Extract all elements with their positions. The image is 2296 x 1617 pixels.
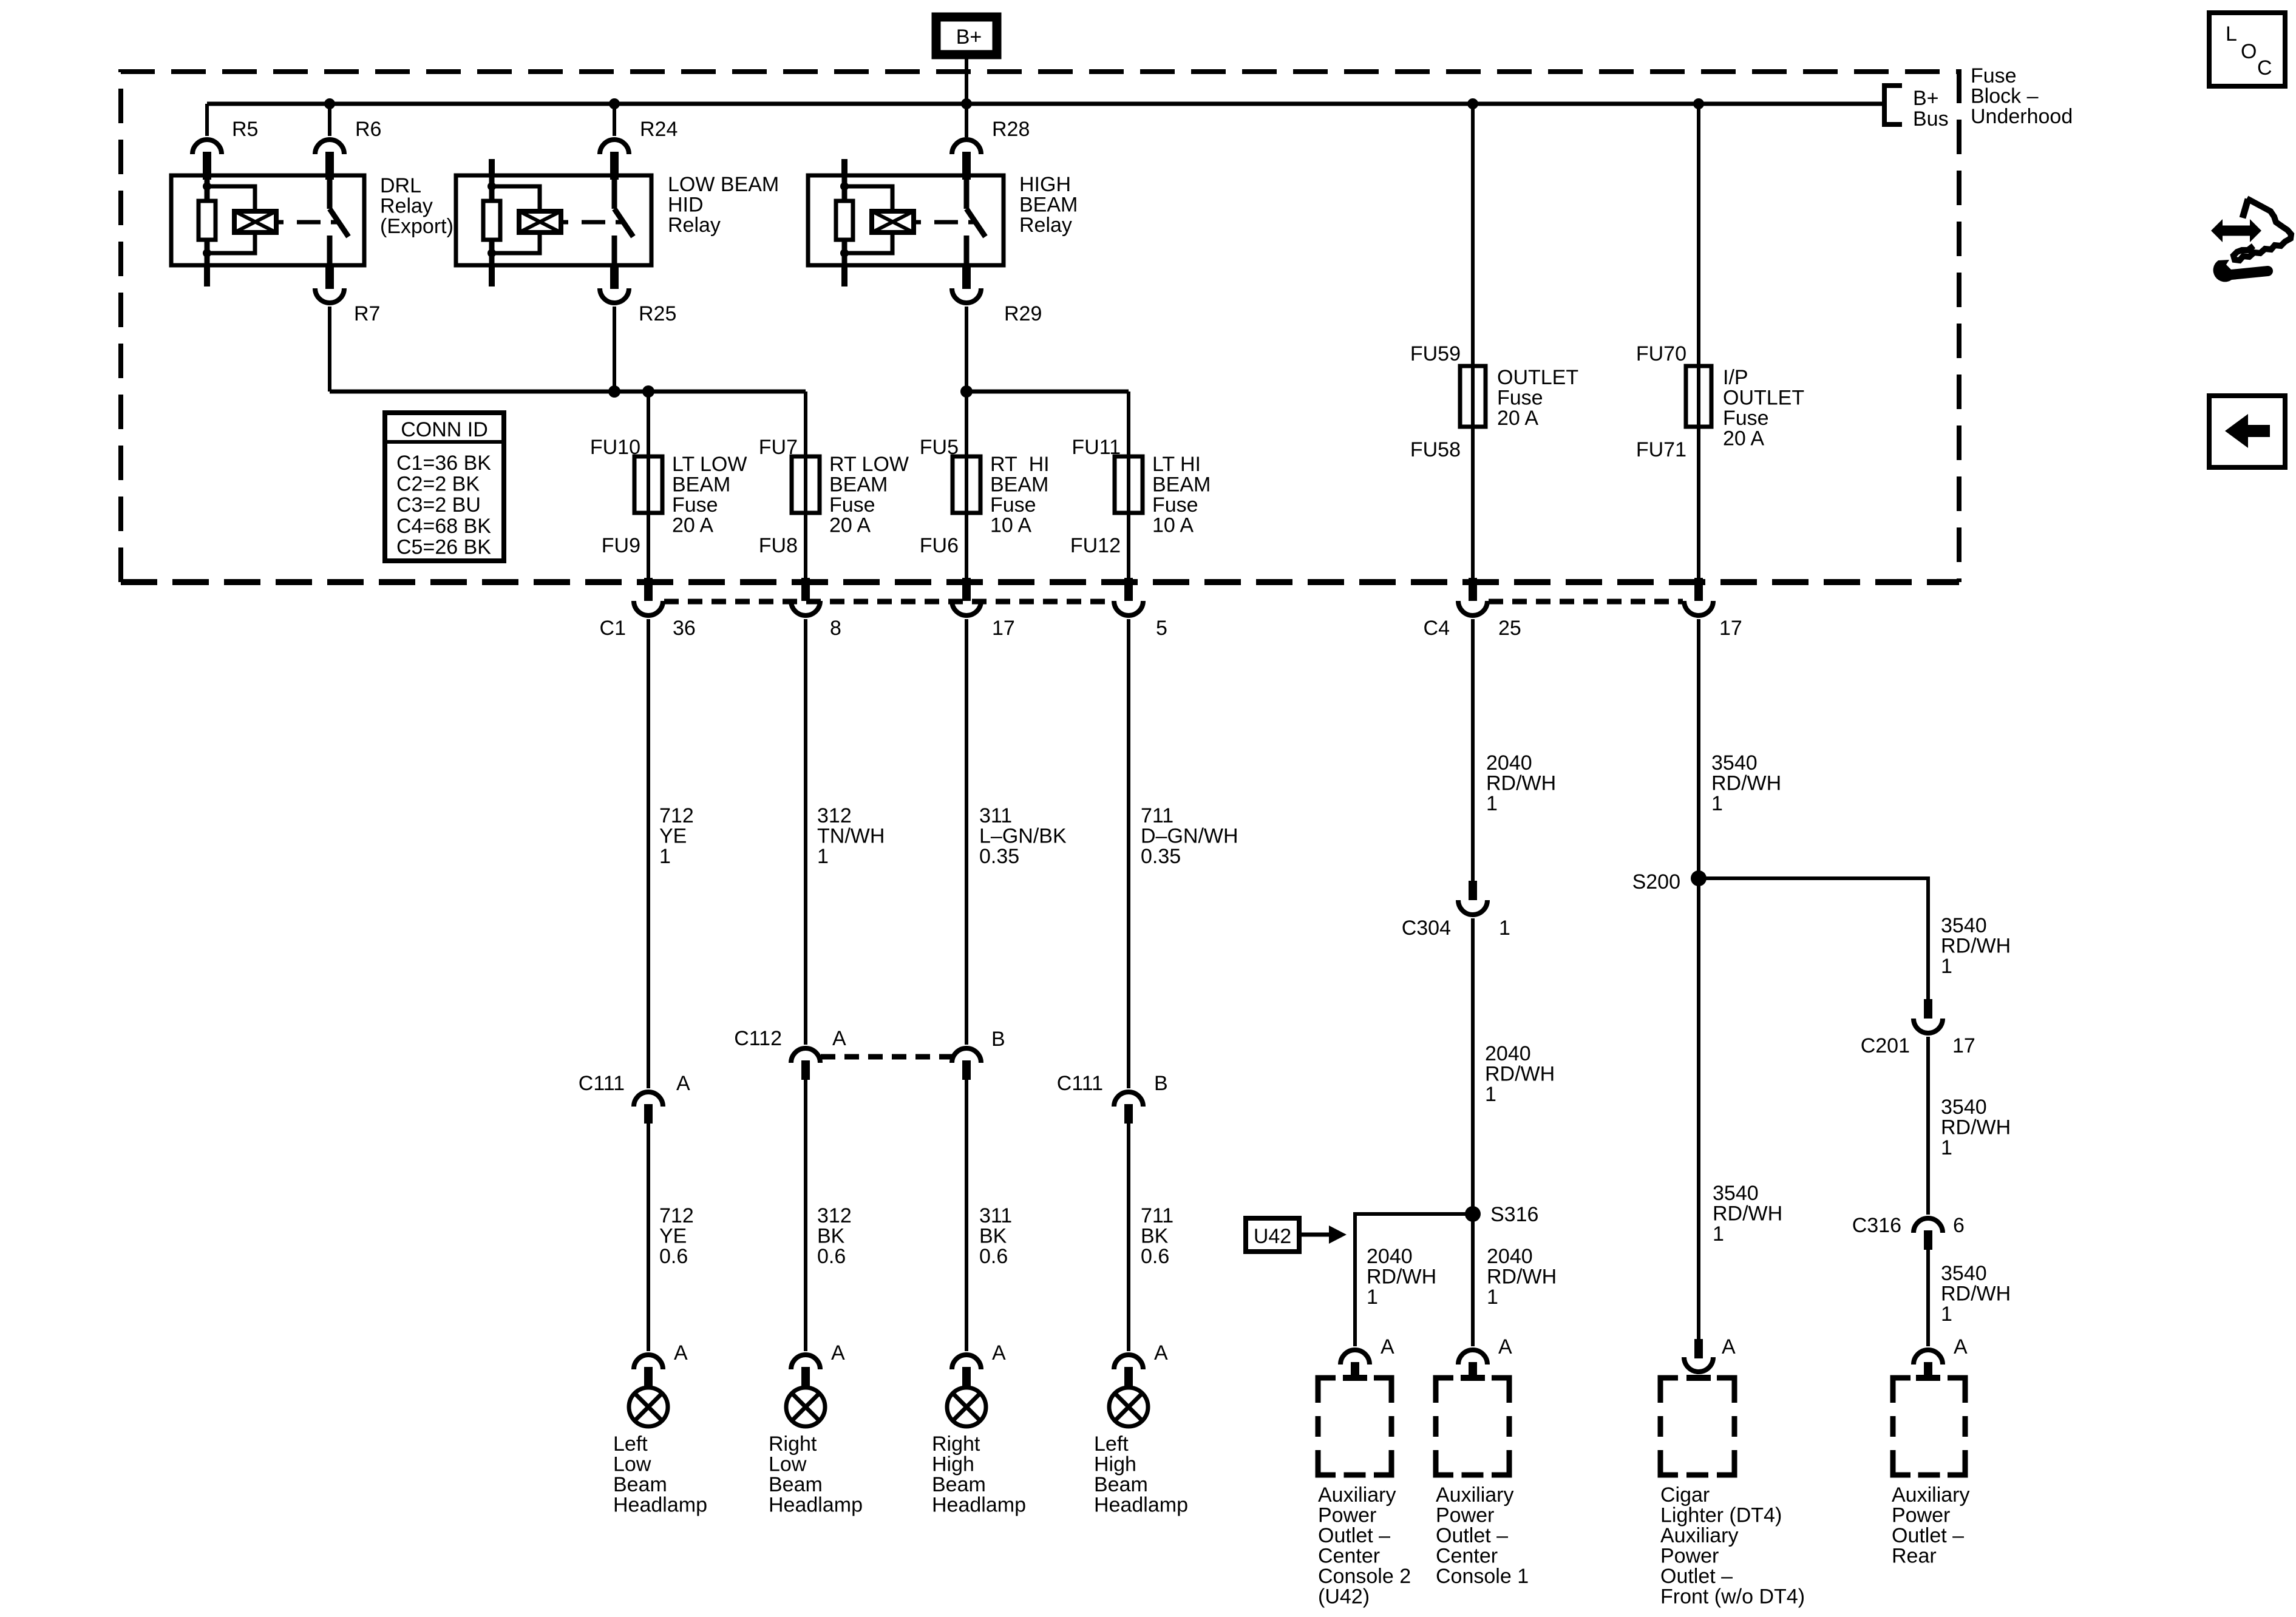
svg-text:Auxiliary: Auxiliary [1892,1483,1969,1507]
svg-text:712: 712 [659,804,694,827]
svg-text:U42: U42 [1254,1225,1291,1248]
svg-text:3540: 3540 [1711,751,1758,775]
svg-text:C: C [2257,56,2272,80]
svg-text:Power: Power [1892,1504,1950,1527]
svg-text:17: 17 [1719,617,1742,640]
svg-text:Front (w/o DT4): Front (w/o DT4) [1660,1585,1805,1609]
svg-text:R25: R25 [639,302,676,325]
svg-text:C4=68 BK: C4=68 BK [396,515,491,538]
svg-text:C3=2 BU: C3=2 BU [396,493,481,517]
svg-text:Low: Low [613,1453,651,1476]
svg-text:RD/WH: RD/WH [1485,1063,1555,1086]
svg-text:3540: 3540 [1941,914,1987,937]
svg-text:0.6: 0.6 [979,1245,1008,1268]
svg-text:20 A: 20 A [672,514,713,537]
svg-text:Power: Power [1660,1545,1719,1568]
svg-text:RD/WH: RD/WH [1486,772,1556,795]
svg-text:Beam: Beam [1094,1473,1148,1496]
svg-text:0.6: 0.6 [1141,1245,1169,1268]
svg-text:FU9: FU9 [602,534,640,557]
svg-text:HID: HID [668,194,704,217]
svg-text:5: 5 [1156,617,1167,640]
svg-text:C201: C201 [1861,1034,1910,1057]
svg-text:3540: 3540 [1941,1096,1987,1119]
svg-text:Fuse: Fuse [990,493,1036,517]
svg-text:A: A [1498,1335,1512,1358]
svg-text:A: A [992,1341,1006,1364]
svg-text:Left: Left [1094,1432,1129,1456]
svg-text:Beam: Beam [932,1473,986,1496]
svg-text:CONN ID: CONN ID [401,418,488,441]
svg-text:BEAM: BEAM [1019,194,1078,217]
svg-text:Auxiliary: Auxiliary [1436,1483,1513,1507]
svg-text:Headlamp: Headlamp [932,1494,1026,1517]
svg-text:Block –: Block – [1971,85,2039,108]
svg-text:A: A [676,1072,690,1095]
svg-text:FU11: FU11 [1072,436,1121,459]
svg-text:C5=26 BK: C5=26 BK [396,535,491,558]
svg-text:Outlet –: Outlet – [1318,1524,1390,1547]
svg-text:10 A: 10 A [1152,514,1194,537]
svg-text:1: 1 [1367,1286,1378,1309]
svg-text:312: 312 [817,1204,852,1227]
svg-text:Center: Center [1318,1545,1380,1568]
svg-text:DRL: DRL [380,174,421,197]
svg-text:Fuse: Fuse [1971,64,2017,87]
svg-text:1: 1 [1487,1286,1498,1309]
svg-text:BK: BK [979,1225,1007,1248]
svg-text:Auxiliary: Auxiliary [1318,1483,1396,1507]
svg-text:1: 1 [1941,1136,1952,1159]
svg-text:Relay: Relay [380,195,433,218]
svg-text:2040: 2040 [1367,1245,1413,1268]
svg-text:FU71: FU71 [1636,438,1686,461]
svg-text:L: L [2226,22,2237,46]
svg-text:6: 6 [1953,1214,1965,1237]
svg-text:Outlet –: Outlet – [1892,1524,1964,1547]
svg-text:1: 1 [1711,792,1723,815]
svg-text:Headlamp: Headlamp [613,1494,707,1517]
svg-text:R28: R28 [992,118,1030,141]
svg-text:A: A [832,1027,846,1050]
svg-text:3540: 3540 [1713,1182,1759,1205]
svg-text:RT LOW: RT LOW [829,453,909,476]
svg-text:17: 17 [1952,1034,1975,1057]
svg-text:FU12: FU12 [1070,534,1121,557]
svg-text:Underhood: Underhood [1971,105,2073,128]
svg-text:High: High [1094,1453,1136,1476]
svg-text:1: 1 [1941,955,1952,978]
svg-text:R7: R7 [354,302,380,325]
svg-text:A: A [674,1341,688,1364]
svg-text:B+: B+ [1913,87,1939,110]
svg-text:RD/WH: RD/WH [1487,1266,1557,1289]
svg-text:1: 1 [1941,1303,1952,1326]
svg-text:312: 312 [817,804,852,827]
svg-text:Beam: Beam [613,1473,667,1496]
svg-text:A: A [1954,1335,1968,1358]
svg-text:BEAM: BEAM [829,473,888,497]
svg-text:R5: R5 [232,118,258,141]
svg-text:B: B [1154,1072,1168,1095]
svg-text:711: 711 [1141,804,1173,827]
svg-text:L–GN/BK: L–GN/BK [979,825,1067,848]
svg-text:Fuse: Fuse [829,493,875,517]
svg-text:BK: BK [817,1225,845,1248]
svg-text:Rear: Rear [1892,1545,1937,1568]
svg-text:311: 311 [979,1204,1012,1227]
svg-text:FU59: FU59 [1410,342,1461,365]
svg-text:S200: S200 [1632,870,1680,893]
svg-text:0.6: 0.6 [817,1245,846,1268]
svg-text:B+: B+ [956,25,982,49]
svg-text:C2=2 BK: C2=2 BK [396,473,480,496]
svg-text:FU70: FU70 [1636,342,1686,365]
svg-text:C304: C304 [1402,917,1451,940]
svg-text:25: 25 [1498,617,1521,640]
svg-text:711: 711 [1141,1204,1173,1227]
svg-text:S316: S316 [1490,1203,1538,1226]
svg-text:8: 8 [830,617,841,640]
svg-text:RD/WH: RD/WH [1713,1202,1782,1225]
svg-text:YE: YE [659,825,687,848]
svg-text:Auxiliary: Auxiliary [1660,1524,1738,1547]
svg-text:FU6: FU6 [920,534,959,557]
svg-text:RD/WH: RD/WH [1941,1116,2011,1139]
svg-text:OUTLET: OUTLET [1723,387,1804,410]
svg-text:0.35: 0.35 [1141,845,1181,868]
svg-text:RD/WH: RD/WH [1941,935,2011,958]
svg-text:Cigar: Cigar [1660,1483,1710,1507]
svg-text:BEAM: BEAM [1152,473,1211,497]
svg-text:R29: R29 [1004,302,1042,325]
svg-text:Lighter (DT4): Lighter (DT4) [1660,1504,1782,1527]
svg-text:Headlamp: Headlamp [769,1494,863,1517]
svg-text:HIGH: HIGH [1019,173,1071,196]
svg-text:LT HI: LT HI [1152,453,1201,476]
svg-text:RD/WH: RD/WH [1941,1283,2011,1306]
svg-text:Power: Power [1318,1504,1376,1527]
svg-text:3540: 3540 [1941,1262,1987,1285]
svg-text:A: A [1722,1335,1736,1358]
svg-text:FU7: FU7 [759,436,798,459]
svg-text:Center: Center [1436,1545,1498,1568]
svg-text:20 A: 20 A [1723,427,1764,450]
svg-text:Console 2: Console 2 [1318,1565,1411,1588]
svg-text:OUTLET: OUTLET [1497,366,1578,389]
svg-text:C1: C1 [600,617,626,640]
svg-text:1: 1 [659,845,671,868]
svg-text:Console 1: Console 1 [1436,1565,1529,1588]
svg-text:712: 712 [659,1204,694,1227]
svg-text:20 A: 20 A [1497,407,1538,430]
svg-text:Relay: Relay [668,214,721,237]
svg-text:(Export): (Export) [380,215,453,238]
svg-text:Fuse: Fuse [672,493,718,517]
svg-text:High: High [932,1453,974,1476]
svg-text:Right: Right [932,1432,980,1456]
svg-text:Relay: Relay [1019,214,1072,237]
svg-text:Outlet –: Outlet – [1660,1565,1733,1588]
svg-text:C111: C111 [579,1072,625,1095]
svg-text:YE: YE [659,1225,687,1248]
svg-text:Headlamp: Headlamp [1094,1494,1188,1517]
svg-text:BEAM: BEAM [990,473,1048,497]
svg-text:1: 1 [817,845,829,868]
svg-text:311: 311 [979,804,1012,827]
svg-text:LOW BEAM: LOW BEAM [668,173,779,196]
svg-text:LT LOW: LT LOW [672,453,747,476]
svg-text:Left: Left [613,1432,648,1456]
svg-text:2040: 2040 [1485,1042,1531,1065]
svg-text:C112: C112 [734,1027,782,1050]
svg-text:Low: Low [769,1453,807,1476]
svg-text:1: 1 [1486,792,1498,815]
svg-text:0.35: 0.35 [979,845,1019,868]
svg-text:RT HI: RT HI [990,453,1050,476]
svg-text:I/P: I/P [1723,366,1748,389]
svg-text:RD/WH: RD/WH [1367,1266,1436,1289]
svg-text:20 A: 20 A [829,514,871,537]
svg-text:36: 36 [673,617,696,640]
svg-text:O: O [2241,40,2257,63]
svg-text:Outlet –: Outlet – [1436,1524,1508,1547]
svg-text:FU10: FU10 [590,436,640,459]
svg-text:C4: C4 [1424,617,1450,640]
svg-text:FU5: FU5 [920,436,959,459]
svg-text:FU8: FU8 [759,534,798,557]
svg-text:BK: BK [1141,1225,1169,1248]
svg-text:Power: Power [1436,1504,1494,1527]
svg-text:0.6: 0.6 [659,1245,688,1268]
svg-text:C1=36 BK: C1=36 BK [396,452,491,475]
svg-text:2040: 2040 [1486,751,1532,775]
svg-text:Fuse: Fuse [1152,493,1198,517]
svg-text:Bus: Bus [1913,107,1949,131]
svg-text:A: A [831,1341,845,1364]
svg-text:2040: 2040 [1487,1245,1533,1268]
svg-text:Fuse: Fuse [1723,407,1769,430]
svg-text:R24: R24 [640,118,678,141]
svg-text:B: B [991,1028,1005,1051]
svg-text:A: A [1154,1341,1168,1364]
svg-text:Right: Right [769,1432,817,1456]
svg-text:1: 1 [1485,1083,1496,1106]
svg-text:1: 1 [1499,917,1510,940]
svg-text:(U42): (U42) [1318,1585,1370,1609]
svg-text:C316: C316 [1852,1214,1901,1237]
svg-text:10 A: 10 A [990,514,1031,537]
svg-text:RD/WH: RD/WH [1711,772,1781,795]
svg-text:FU58: FU58 [1410,438,1461,461]
svg-text:Fuse: Fuse [1497,387,1543,410]
svg-text:17: 17 [992,617,1015,640]
svg-text:BEAM: BEAM [672,473,730,497]
svg-text:Beam: Beam [769,1473,823,1496]
svg-text:R6: R6 [355,118,381,141]
svg-text:C111: C111 [1057,1072,1103,1095]
svg-text:1: 1 [1713,1222,1724,1246]
svg-text:TN/WH: TN/WH [817,825,885,848]
svg-text:D–GN/WH: D–GN/WH [1141,825,1238,848]
svg-text:A: A [1381,1335,1394,1358]
